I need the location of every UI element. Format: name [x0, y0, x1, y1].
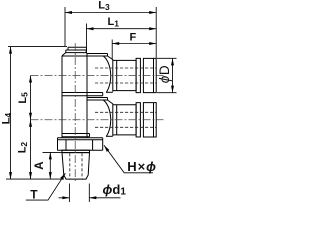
port1 centerline — [31, 75, 164, 77]
T leader — [26, 173, 66, 200]
L1 arrows — [87, 27, 94, 30]
F ext left — [111, 40, 113, 60]
elbow1 shoulder chamfer — [108, 56, 113, 60]
elbow2 bore dashed — [95, 112, 156, 127]
top cap face — [68, 47, 87, 50]
elbow2 lower shoulder stub — [106, 135, 113, 137]
ext top-left horizontal — [8, 46, 67, 48]
elbow1 ball — [104, 56, 111, 92]
elbow2 ball — [104, 100, 111, 136]
A arrows — [49, 152, 52, 159]
elbow1 collar face — [112, 59, 114, 91]
arrowheads — [9, 11, 174, 199]
top cap step 1 — [66, 50, 87, 53]
phid1 ext left — [68, 184, 70, 203]
thread bore dashed — [70, 153, 82, 178]
phiD ext bottom — [157, 92, 177, 94]
L2 arrows — [29, 120, 32, 127]
L5 L2 dim line — [30, 76, 32, 180]
svg-text:L5: L5 — [17, 92, 30, 104]
svg-text:L1: L1 — [108, 16, 120, 29]
elbow1 bottom skirt — [62, 93, 103, 96]
phid1 dim line — [59, 197, 121, 199]
elbow1 bore dashed — [95, 68, 156, 83]
hex chamfer band — [58, 138, 103, 140]
L4 dim line — [10, 47, 12, 180]
ext thread-seat — [43, 151, 63, 153]
body column left edge — [61, 56, 63, 138]
L1 ext left — [86, 24, 88, 54]
ext line L3 left — [64, 7, 66, 46]
elbow2 cylinder — [113, 105, 136, 135]
dimensions — [6, 7, 177, 202]
svg-text:T: T — [30, 187, 38, 201]
hex nut — [58, 140, 103, 151]
elbow2 cap — [143, 103, 156, 137]
elbow2 top flats — [87, 98, 108, 101]
top cap step 2 — [62, 53, 87, 56]
svg-text:L4: L4 — [0, 113, 13, 125]
body column right edge — [86, 54, 88, 138]
HxPhi leader — [104, 145, 153, 173]
phiD ext top — [157, 57, 177, 59]
port2 centerline — [31, 119, 164, 121]
elbow1 top flats — [62, 54, 108, 57]
T leader arrowhead — [60, 173, 65, 180]
ext bottom horizontal — [6, 178, 64, 180]
elbow2 shoulder chamfer — [108, 100, 113, 104]
L3 arrows — [65, 11, 72, 14]
svg-text:A: A — [34, 161, 46, 169]
svg-text:H×ϕ: H×ϕ — [127, 159, 157, 174]
ext line right shared — [155, 7, 157, 58]
phid1 ext right — [88, 184, 90, 203]
elbow1 cap — [143, 58, 156, 92]
phiD arrows — [171, 58, 174, 65]
HxPhi leader arrowhead — [104, 145, 109, 152]
svg-text:ϕD: ϕD — [157, 65, 172, 83]
elbow2 rib — [136, 103, 140, 137]
taper thread — [62, 153, 90, 180]
L3 dim line — [65, 12, 156, 14]
elbow1 rib — [136, 58, 140, 92]
F dim line — [112, 43, 156, 45]
elbow2 collar face — [112, 104, 114, 136]
svg-text:L2: L2 — [16, 142, 29, 154]
body vertical centerline — [74, 43, 76, 183]
part outlines — [58, 47, 157, 179]
L4 arrows — [9, 47, 12, 54]
elbow2 bottom skirt — [62, 134, 90, 137]
L5 arrows — [29, 76, 32, 83]
A dim line — [49, 152, 51, 179]
thread washer — [62, 150, 90, 152]
phiD dim line — [172, 58, 174, 92]
phid1 arrows — [62, 196, 69, 199]
hidden bore lines — [70, 68, 156, 179]
elbow1 lower shoulder stub — [106, 91, 113, 93]
svg-text:F: F — [130, 31, 137, 43]
L1 dim line — [87, 28, 157, 30]
centerlines — [31, 43, 164, 183]
elbow1 cylinder — [113, 60, 136, 90]
svg-text:L3: L3 — [98, 0, 110, 12]
F arrows — [112, 42, 119, 45]
